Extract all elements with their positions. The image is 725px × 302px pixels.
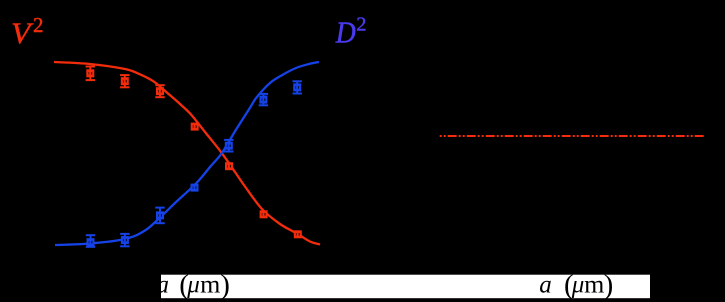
- blue data point D2-1 square marker: [88, 239, 94, 245]
- svg-text:μ: μ: [571, 272, 585, 299]
- blue data point D2-1 error bar: [86, 235, 95, 247]
- red data point V2-6 square marker: [261, 211, 267, 217]
- D squared label: [335, 14, 367, 50]
- svg-text:a: a: [157, 272, 170, 299]
- svg-text:a: a: [539, 272, 552, 299]
- blue data point D2-4 square marker: [192, 185, 198, 191]
- svg-text:2: 2: [356, 14, 366, 36]
- red data point V2-3 error bar: [155, 85, 164, 97]
- svg-text:m: m: [584, 272, 605, 299]
- svg-text:2: 2: [33, 13, 44, 37]
- white x-axis label strip: [161, 275, 650, 299]
- blue data point D2-6 square marker: [261, 97, 267, 103]
- svg-text:D: D: [335, 14, 356, 49]
- red data point V2-3 square marker: [157, 88, 163, 94]
- red fit curve V^2 (decreasing sigmoid): [54, 62, 320, 244]
- x axis label right plot: a (micrometer): [539, 269, 613, 301]
- blue data point D2-5 square marker: [226, 143, 232, 149]
- blue fit curve D^2 (increasing sigmoid): [55, 62, 319, 245]
- blue data point D2-3 square marker: [157, 213, 163, 219]
- svg-text:μ: μ: [186, 272, 200, 299]
- blue data point D2-7 error bar: [293, 81, 302, 93]
- red data point V2-2 error bar: [120, 75, 129, 87]
- red data point V2-1 error bar: [86, 67, 95, 81]
- red dash-dot horizontal line V^2 plus D^2: [439, 135, 704, 137]
- blue data point D2-7 square marker: [294, 85, 300, 91]
- blue data point D2-3 error bar: [155, 208, 164, 224]
- red data point V2-5 square marker: [226, 163, 232, 169]
- red data point V2-7 square marker: [295, 231, 301, 237]
- svg-text:): ): [220, 269, 230, 301]
- red data point V2-4 square marker: [192, 124, 198, 130]
- red data point V2-2 square marker: [122, 78, 128, 84]
- blue data point D2-2 square marker: [122, 237, 128, 243]
- svg-text:m: m: [200, 272, 221, 299]
- blue data point D2-2 error bar: [120, 234, 129, 246]
- blue data point D2-6 error bar: [259, 94, 268, 105]
- blue data point D2-5 error bar: [224, 140, 233, 152]
- V squared label: [11, 13, 44, 50]
- x axis label left plot: a (micrometer): [157, 269, 230, 301]
- svg-text:): ): [604, 269, 614, 301]
- red data point V2-1 square marker: [87, 70, 93, 76]
